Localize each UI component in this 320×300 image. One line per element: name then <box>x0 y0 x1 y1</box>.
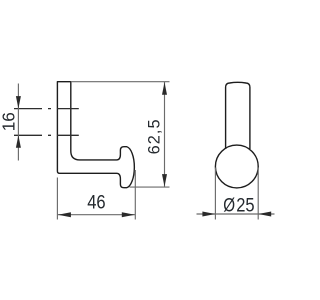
dim d25 arrow left <box>202 212 215 217</box>
hook front view: circle <box>215 145 258 188</box>
centerline upper <box>14 108 79 110</box>
ext line left (46) <box>56 178 58 220</box>
dim 16 line <box>17 84 19 161</box>
dim 62.5 arrow bottom <box>162 174 167 187</box>
svg-text:46: 46 <box>87 191 105 213</box>
dim 46 line <box>57 214 135 216</box>
ext line right (46) <box>134 170 136 220</box>
svg-text:62,5: 62,5 <box>145 118 163 154</box>
dim d25 line <box>197 213 275 215</box>
svg-text:Ø: Ø <box>223 194 235 216</box>
dim 16 arrow top <box>16 96 21 109</box>
svg-text:16: 16 <box>0 112 19 131</box>
hook side view outline <box>57 82 134 188</box>
hook front view: stem <box>226 82 250 149</box>
dim 16 arrow bottom <box>16 135 21 148</box>
ext line right (d25) <box>257 168 259 220</box>
dim 62.5 arrow top <box>162 82 167 95</box>
dim d25 arrow right <box>258 212 271 217</box>
dim 46 arrow left <box>58 212 71 217</box>
centerline lower <box>14 134 79 136</box>
dim 62.5 line <box>164 82 166 187</box>
ext line bottom (62.5) <box>130 186 170 188</box>
ext line top (62.5) <box>71 81 170 83</box>
dim 46 arrow right <box>122 212 135 217</box>
ext line left (d25) <box>214 168 216 220</box>
svg-text:25: 25 <box>236 195 254 216</box>
